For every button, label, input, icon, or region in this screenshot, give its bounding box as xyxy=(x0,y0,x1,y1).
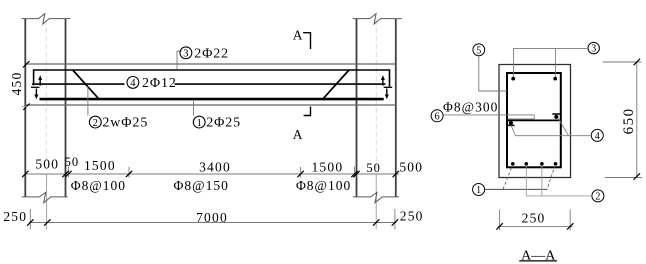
section stirrup rect xyxy=(507,73,561,167)
label 3 circle xyxy=(180,47,192,59)
right end hook down arrow xyxy=(386,89,388,97)
svg-text:1500: 1500 xyxy=(311,159,343,174)
rebar 4 middle bar left segment xyxy=(32,83,125,85)
svg-text:2Φ12: 2Φ12 xyxy=(142,76,177,91)
svg-text:2Φ22: 2Φ22 xyxy=(194,46,229,61)
label 3 leader xyxy=(177,51,182,70)
svg-text:1: 1 xyxy=(197,118,202,129)
svg-text:500: 500 xyxy=(35,156,59,171)
section outer rect xyxy=(499,65,571,178)
right column top break line xyxy=(353,14,402,24)
label 2s circle xyxy=(592,190,604,202)
label 4s circle xyxy=(591,129,603,141)
dimension row2 line xyxy=(29,222,397,224)
beam bottom outline xyxy=(25,104,396,106)
svg-text:250: 250 xyxy=(3,209,27,224)
left end hook down arrow xyxy=(35,89,37,97)
section bottom dots xyxy=(511,162,515,166)
label 6 leader upper xyxy=(443,114,534,116)
section tie bar 4 xyxy=(508,119,562,121)
dim 650 ext top xyxy=(603,61,642,63)
svg-text:2Φ25: 2Φ25 xyxy=(206,116,241,131)
svg-text:650: 650 xyxy=(621,107,637,134)
dimension row2 extension left xyxy=(29,209,31,229)
dim 650 line xyxy=(636,62,638,178)
right end short bar xyxy=(384,86,393,88)
svg-text:3400: 3400 xyxy=(199,160,231,175)
dim 650 ticks xyxy=(634,59,640,65)
dim 250 ticks xyxy=(496,223,502,229)
right column line east xyxy=(395,19,397,197)
label 2s leader xyxy=(526,195,592,197)
label 2s vertical dot2 xyxy=(525,166,527,196)
dim 250 ext right xyxy=(569,209,571,230)
label 2 circle xyxy=(89,116,101,128)
label 6 leader lower xyxy=(508,118,535,120)
svg-text:Φ8@150: Φ8@150 xyxy=(174,178,229,193)
svg-text:7000: 7000 xyxy=(196,210,228,225)
label 5 leader xyxy=(479,56,507,91)
dimension row1 line xyxy=(26,173,400,175)
rebar 4 middle bar right segment xyxy=(175,83,386,85)
rebar 3 top bar xyxy=(34,70,390,87)
left end short bar xyxy=(31,86,40,88)
svg-text:2: 2 xyxy=(595,191,600,202)
title underline xyxy=(519,260,557,262)
label 4s leader xyxy=(515,135,591,137)
section top dot left xyxy=(511,77,515,81)
left column line east xyxy=(65,19,67,197)
label 3s leader 2 xyxy=(554,48,556,76)
left column bottom break line xyxy=(22,192,68,202)
tie left end dot xyxy=(509,121,513,125)
label 1s leader xyxy=(485,188,548,190)
section top dot right xyxy=(553,77,557,81)
left column centerline lower solid xyxy=(46,174,48,229)
label 1 circle xyxy=(193,116,205,128)
dim 250 ext left xyxy=(499,209,501,230)
svg-text:2wΦ25: 2wΦ25 xyxy=(102,116,148,131)
label 4s diag right xyxy=(559,119,569,136)
label 6 circle xyxy=(431,110,443,122)
right column line west xyxy=(356,19,358,197)
rebar 2 bent bar left diagonal xyxy=(73,70,99,99)
svg-text:5: 5 xyxy=(476,45,481,56)
dimension row1 extension 129 xyxy=(128,167,130,178)
label 3s circle xyxy=(588,42,599,53)
svg-text:1: 1 xyxy=(476,185,481,196)
label 6 leader vertical xyxy=(533,115,535,119)
svg-text:Φ8@100: Φ8@100 xyxy=(71,178,126,193)
svg-text:450: 450 xyxy=(9,72,24,96)
section mark A bottom xyxy=(304,107,311,116)
svg-text:1500: 1500 xyxy=(84,158,116,173)
label 3s leader xyxy=(514,48,588,76)
dimension row1 extension 300 xyxy=(300,167,302,178)
dimension row1 extension 68 xyxy=(67,167,69,178)
svg-text:4: 4 xyxy=(130,78,136,89)
label 5 circle xyxy=(473,44,485,56)
left column top break line xyxy=(22,14,71,24)
right column centerline lower solid xyxy=(375,174,377,229)
dim 450 tick bottom xyxy=(23,104,29,110)
dimension row2 extension right xyxy=(394,209,396,229)
label 1s diag xyxy=(503,165,513,189)
svg-text:Φ8@100: Φ8@100 xyxy=(296,178,351,193)
svg-text:4: 4 xyxy=(595,131,600,142)
left column centerline xyxy=(45,20,47,172)
dim 250 line xyxy=(498,225,573,227)
tie right end dot xyxy=(554,115,558,119)
svg-text:A: A xyxy=(293,127,303,142)
label 1s circle xyxy=(473,184,485,196)
beam top outline xyxy=(25,63,396,65)
svg-text:2: 2 xyxy=(93,118,98,129)
tie right end tick xyxy=(552,113,560,115)
svg-text:50: 50 xyxy=(366,161,381,175)
label 4s diag left xyxy=(511,125,516,136)
left column line west xyxy=(24,19,26,197)
label 1 leader xyxy=(193,100,195,116)
label 4 circle xyxy=(127,77,139,89)
row2 ticks xyxy=(27,219,398,225)
dim 650 ext bottom xyxy=(605,177,642,179)
right column centerline xyxy=(375,20,377,172)
rebar 2 bent bar right diagonal xyxy=(323,70,349,99)
dim 450 tick top xyxy=(23,61,29,67)
label 2 leader xyxy=(87,86,89,115)
svg-text:6: 6 xyxy=(435,111,440,122)
row1 ticks xyxy=(22,171,399,177)
label 2s vertical dot3 xyxy=(541,166,543,196)
svg-text:Φ8@300: Φ8@300 xyxy=(443,99,498,114)
right column bottom break line xyxy=(353,192,399,202)
left end hook up arrow xyxy=(39,78,41,86)
svg-text:A: A xyxy=(293,27,303,42)
svg-text:500: 500 xyxy=(399,160,423,175)
tie left end tick xyxy=(507,124,515,126)
svg-text:3: 3 xyxy=(183,49,188,60)
dimension row1 extension 354 xyxy=(354,167,356,178)
svg-text:250: 250 xyxy=(522,210,546,225)
rebar 1 bottom bar xyxy=(40,98,384,101)
right end hook up arrow xyxy=(382,78,384,86)
svg-text:50: 50 xyxy=(65,155,80,169)
svg-text:250: 250 xyxy=(400,209,424,224)
svg-text:3: 3 xyxy=(591,44,596,55)
label 1s diag dot4 xyxy=(547,165,555,189)
dim 450 bottom stub xyxy=(22,106,28,108)
